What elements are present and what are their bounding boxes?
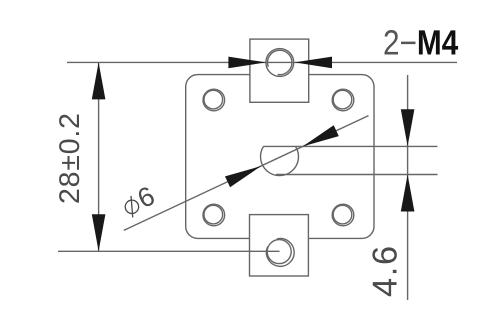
phi6 diagonal dimension line [124,116,369,231]
label 2-M4 [384,30,458,54]
label 4.6 [372,247,396,296]
arrowhead lower-left on phi6 diagonal [225,166,261,187]
arrowhead upper-right on phi6 diagonal [303,125,339,146]
center hole phi6 arc [261,146,299,175]
arrowhead left at M4 hole right [295,57,333,69]
bottom mounting tab [250,215,309,276]
arrowhead up at 4.6 dim bottom [401,175,415,212]
top tab tapped hole 2-M4 [266,49,294,77]
top mounting tab [250,39,309,102]
label phi6 [121,186,158,219]
corner hole top-right [332,89,354,111]
arrowhead down at 4.6 dim top [401,109,415,146]
slot top edge line [263,145,437,147]
corner hole top-left [203,89,225,111]
slot bottom edge line [276,174,438,176]
bottom tab tapped hole 2-M4 [266,239,294,267]
dimension line 4.6 [407,75,409,300]
corner hole bottom-left [203,204,225,226]
label 28±0.2 [59,114,79,202]
arrowhead up at 28 dim top [92,62,106,99]
corner hole bottom-right [332,204,354,226]
arrowhead down at 28 dim bottom [92,214,106,251]
bottom extension line [58,250,280,252]
plate body outline [186,75,374,239]
top extension line / M4 leader [67,61,457,63]
dimension line 28±0.2 [98,62,100,251]
arrowhead right at M4 hole left [228,57,266,69]
